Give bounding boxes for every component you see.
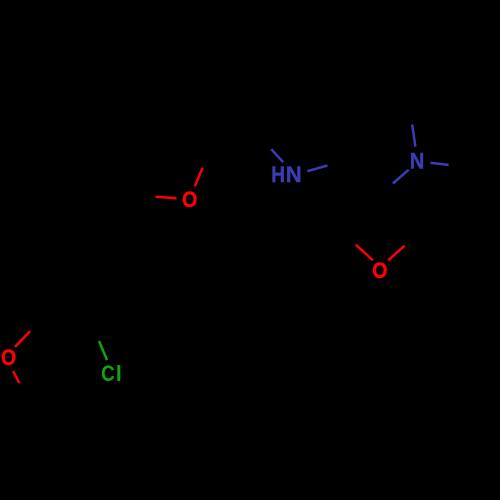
- svg-text:O: O: [182, 187, 197, 212]
- svg-text:N: N: [286, 162, 302, 187]
- svg-text:H: H: [271, 162, 285, 187]
- bond N-CH2 (up-left half, blue): [271, 149, 283, 162]
- bond N-C3 oxetane (down-left half, blue): [393, 170, 409, 184]
- bond O-CH2 (up-right half, red): [388, 246, 404, 261]
- svg-text:O: O: [1, 345, 16, 370]
- bond O-CH2 (up-right half, red): [195, 168, 203, 187]
- bond O-C aryl (left half, red): [156, 197, 177, 199]
- bond N-CH3 (right half, blue): [430, 163, 448, 165]
- bond Cl-C aryl (up half, green): [99, 341, 107, 360]
- bond N-CH2 (right half, blue): [307, 166, 327, 172]
- bond O-CH3 (down-right half, red): [13, 371, 19, 383]
- bond N-CH3 (up half, blue): [412, 125, 415, 147]
- bond O-C aryl (up-right half, red): [15, 331, 30, 347]
- bond O-CH2 (up-left half, red): [356, 245, 373, 261]
- svg-text:O: O: [372, 258, 387, 283]
- svg-text:C: C: [101, 361, 115, 386]
- svg-text:l: l: [116, 361, 122, 386]
- svg-text:N: N: [410, 149, 425, 174]
